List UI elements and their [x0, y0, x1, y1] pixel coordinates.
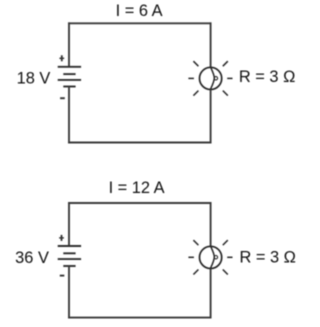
battery B2 long plate 1 [58, 245, 81, 247]
lamp L2 rays [188, 240, 232, 274]
wire: left vertical lower segment (top circuit) [68, 87, 70, 144]
wire: left vertical lower segment (bottom circuit) [68, 266, 70, 319]
wire: left vertical upper segment (bottom circuit) [68, 202, 70, 246]
battery B2 short plate 1 [63, 252, 75, 254]
wire: top horizontal (bottom circuit) [68, 202, 211, 204]
svg-text:18 V: 18 V [17, 69, 51, 87]
lamp L1 filament tip ring [214, 77, 217, 80]
lamp L2 circle [200, 246, 222, 268]
battery B2 short plate 2 [63, 265, 75, 267]
battery B1 long plate 1 [58, 66, 81, 68]
wire: bottom horizontal (top circuit) [68, 142, 211, 144]
battery B1 (18 V source) plates [58, 67, 81, 87]
lamp L2 filament tip ring [214, 256, 217, 259]
wire: top horizontal (top circuit) [68, 22, 211, 24]
battery B1 short plate 2 [63, 86, 75, 88]
wire: right vertical upper segment (top circuit) [210, 22, 212, 67]
wire: left vertical upper segment (top circuit) [68, 22, 70, 66]
battery B1 minus sign [60, 97, 65, 99]
battery B2 long plate 2 [58, 258, 81, 260]
svg-text:R = 3 Ω: R = 3 Ω [240, 249, 296, 267]
svg-text:R = 3 Ω: R = 3 Ω [239, 68, 295, 86]
lamp L1 circle [200, 67, 222, 89]
battery B2 plus sign [59, 235, 64, 241]
svg-text:I = 6 A: I = 6 A [116, 2, 163, 20]
lamp L1 rays [188, 61, 232, 95]
lamp L2 filament curve [210, 246, 214, 268]
battery B1 short plate 1 [63, 73, 75, 75]
battery B1 long plate 2 [58, 79, 81, 81]
wire: bottom horizontal (bottom circuit) [68, 317, 211, 319]
wire: right vertical lower segment (bottom circuit) [210, 269, 212, 319]
svg-text:I = 12 A: I = 12 A [109, 179, 165, 197]
wire: right vertical upper segment (bottom circuit) [210, 202, 212, 246]
wire: right vertical lower segment (top circuit) [210, 90, 212, 144]
battery B2 (36 V source) plates [58, 246, 81, 266]
svg-text:36 V: 36 V [15, 249, 49, 267]
battery B1 plus sign [59, 55, 64, 61]
lamp L1 filament curve [210, 67, 214, 89]
battery B2 minus sign [60, 275, 65, 277]
